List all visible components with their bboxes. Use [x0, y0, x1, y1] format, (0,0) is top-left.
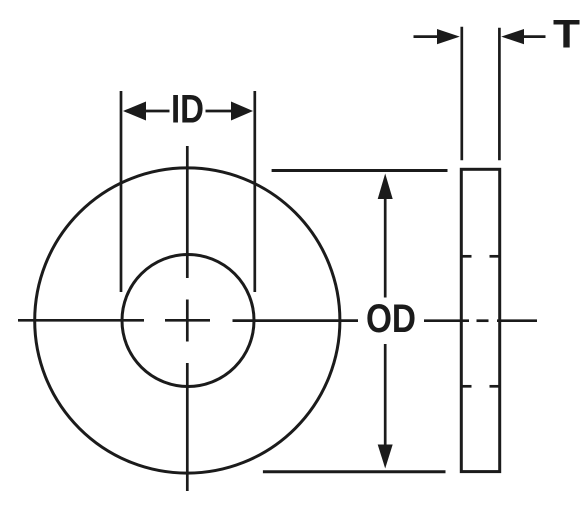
- svg-text:OD: OD: [366, 297, 416, 341]
- svg-text:ID: ID: [171, 87, 204, 131]
- T right arrowhead: [501, 29, 524, 44]
- OD top extension line: [272, 169, 448, 172]
- svg-text:T: T: [553, 12, 580, 56]
- OD dimension line upper shaft: [384, 197, 387, 298]
- horizontal centerline short dash inside side view: [477, 319, 489, 322]
- OD dimension line lower shaft: [384, 344, 387, 449]
- T dimension right arrow shaft: [522, 35, 546, 38]
- OD bottom arrowhead: [378, 445, 393, 469]
- washer outer circle: [35, 168, 340, 473]
- side view rectangle: [461, 169, 499, 471]
- T left arrowhead: [437, 29, 460, 44]
- ID left extension line: [120, 91, 123, 292]
- ID dimension left arrow shaft: [144, 110, 170, 113]
- horizontal centerline rightmost segment: [497, 319, 537, 322]
- hidden line dash lower right: [490, 385, 500, 388]
- hidden line dash lower left: [462, 385, 472, 388]
- T left extension line: [460, 27, 463, 161]
- vertical centerline top segment: [186, 146, 189, 278]
- hidden line dash upper left: [462, 255, 472, 258]
- OD bottom extension line: [263, 470, 446, 473]
- horizontal centerline center dash: [165, 319, 210, 322]
- horizontal centerline right segment: [233, 319, 359, 322]
- horizontal centerline left segment: [18, 319, 144, 322]
- T right extension line: [498, 28, 501, 160]
- ID left arrowhead: [123, 102, 146, 121]
- ID right extension line: [253, 91, 256, 292]
- vertical centerline center dash: [186, 300, 189, 342]
- OD top arrowhead: [378, 174, 393, 200]
- washer inner circle (hole): [122, 255, 254, 387]
- T dimension left arrow shaft: [414, 35, 441, 38]
- ID right arrowhead: [231, 102, 253, 121]
- vertical centerline bottom segment: [186, 363, 189, 491]
- hidden line dash upper right: [490, 255, 500, 258]
- ID dimension right arrow shaft: [206, 110, 234, 113]
- horizontal centerline segment after OD label: [424, 319, 469, 322]
